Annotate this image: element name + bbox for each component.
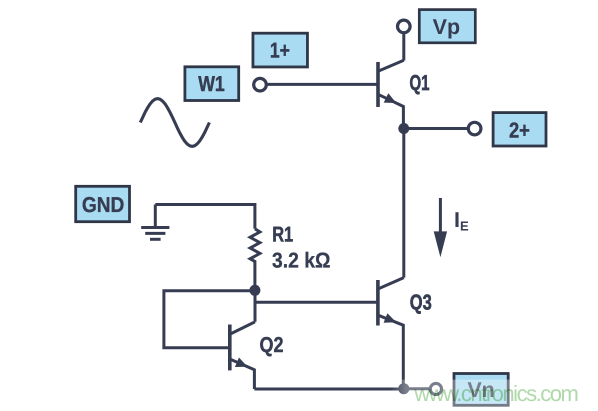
svg-text:R1: R1 <box>272 222 293 246</box>
terminal box 2+ <box>493 113 546 146</box>
terminal box Vn <box>454 374 508 406</box>
transistor Q2 <box>230 322 255 389</box>
watermark wash overlay <box>391 380 598 411</box>
terminal circle Vp <box>398 20 411 33</box>
transistor Q1 <box>378 60 404 123</box>
svg-text:Q2: Q2 <box>260 333 284 357</box>
ground symbol <box>141 205 169 240</box>
svg-text:1+: 1+ <box>270 39 290 63</box>
svg-text:IE: IE <box>454 208 469 234</box>
wire 1+ terminal to Q1 base <box>266 83 378 86</box>
wire node B down to Q2 collector <box>254 291 257 322</box>
terminal circle 1+ <box>254 78 267 91</box>
wire feedback loop node B to Q2 base <box>164 291 255 348</box>
wire node C to Vn terminal <box>404 387 431 390</box>
svg-text:3.2 kΩ: 3.2 kΩ <box>272 249 331 273</box>
node B junction dot (R1 bottom, Q2 collector) <box>249 285 260 296</box>
terminal box Vp <box>419 10 475 43</box>
wire node A to Q3 collector <box>402 128 405 277</box>
svg-text:www.cntronics.com: www.cntronics.com <box>413 381 579 406</box>
wire node A to 2+ terminal <box>404 127 469 130</box>
terminal box W1 <box>185 67 239 101</box>
svg-text:Q3: Q3 <box>410 291 432 315</box>
wire bottom rail Q2 emitter to node C <box>254 388 403 391</box>
sine wave symbol <box>140 99 209 147</box>
svg-text:W1: W1 <box>198 72 225 96</box>
wire Vp circle to Q1 collector <box>402 33 405 60</box>
svg-text:Vp: Vp <box>433 15 460 39</box>
terminal box GND <box>76 186 130 221</box>
transistor Q3 <box>378 278 404 389</box>
node C junction dot (bottom rail, Vn) <box>398 383 409 394</box>
svg-text:GND: GND <box>82 193 125 217</box>
terminal circle 2+ <box>468 122 481 135</box>
svg-text:2+: 2+ <box>509 118 530 142</box>
terminal box 1+ <box>253 33 308 67</box>
current arrow IE <box>434 198 447 257</box>
wire ground to R1 top <box>155 205 255 229</box>
resistor R1 <box>250 229 260 291</box>
node A junction dot (Q1 emitter, 2+) <box>398 123 409 134</box>
wire node B to Q3 base <box>255 301 378 304</box>
terminal circle Vn <box>430 383 441 394</box>
svg-text:Q1: Q1 <box>410 71 430 95</box>
